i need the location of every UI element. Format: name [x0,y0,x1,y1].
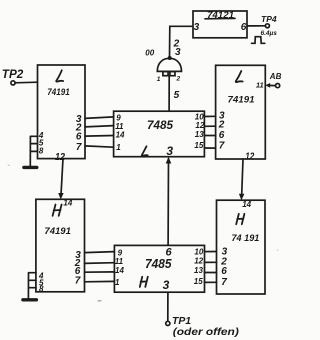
U5 pin 3 [194,22,200,33]
U1 pin 4 [38,131,44,140]
svg-text:5: 5 [174,90,180,101]
wire U4 pin3 to TP1 [167,292,169,321]
U8 pin 14 [242,200,251,209]
nand gate U6 7400 [157,58,181,75]
label H on U4 [140,277,148,287]
svg-text:9: 9 [116,113,121,122]
junction dot at gate output [168,56,172,60]
pulse waveform symbol [252,37,265,44]
terminal TP1 [166,315,191,327]
svg-text:7: 7 [219,141,225,152]
U3 pin 3 [166,144,173,158]
label 2 on gate output wire [173,39,180,50]
monostable U5 74121 [193,10,247,38]
svg-text:12: 12 [55,152,65,163]
svg-text:7485: 7485 [145,257,172,271]
svg-text:10: 10 [194,247,203,256]
U2 pin 7 [75,276,81,287]
counter U1 74191 (top left, L) [38,65,86,159]
wire U1 pins 4,5,8 to ground [30,136,37,166]
U2 pin 2 [74,258,81,269]
ground (U2) [23,298,37,301]
svg-text:00: 00 [145,48,154,57]
svg-text:14: 14 [115,266,124,275]
wire bus U1 to U3 (pins 3,2,6,7 to 9,11,14,1) [85,117,114,147]
U3 pin 1 [116,143,121,152]
U3 pin 11 [115,122,124,131]
wire U1 pin12 to U2 pin14 with arrow [58,159,64,200]
U3 pin 14 [116,131,125,140]
ground (U1) [24,166,37,169]
svg-text:12: 12 [245,151,254,162]
svg-text:6: 6 [219,130,225,141]
U7 pin 7 [219,141,225,152]
U1 pin 5 [39,139,44,148]
U6 pin 2 [176,76,181,83]
paper speckle [98,300,101,302]
U7 pin 12 [245,151,254,162]
U5 pin 6 [241,22,247,33]
counter U7 74191 (top right, L) [216,65,266,159]
svg-text:TP4: TP4 [261,14,277,24]
svg-text:74191: 74191 [228,95,255,105]
svg-text:1: 1 [157,76,161,83]
U3 pin 13 [195,130,204,139]
svg-text:14: 14 [242,200,251,209]
label 3 gate output pin [175,47,181,58]
U4 pin 10 [194,247,203,256]
svg-text:74191: 74191 [44,226,71,236]
wire U4 pin6 to U3 pin3 with arrow [166,157,172,245]
svg-text:74 191: 74 191 [232,233,260,243]
wire bus U2 to U4 (pins 3,2,6,7 to 9,11,14,1) [85,252,115,282]
svg-text:6: 6 [221,266,227,277]
svg-text:7: 7 [75,276,81,287]
U4 pin 6 [166,246,173,258]
wire U5 pin3 to gate output [170,26,193,57]
svg-text:7: 7 [221,277,227,288]
wire U2 pins 4,5,8 to ground [28,273,36,299]
U2 pin 5 [39,278,44,287]
svg-text:14: 14 [116,131,125,140]
svg-text:15: 15 [194,141,203,150]
wire U5 pin6 to TP4 [247,25,265,27]
U1 pin 7 [76,142,82,153]
wire bus U3 to U7 (pins 10,12,13,15 to 3,2,6,7) [204,116,215,148]
svg-text:3: 3 [166,144,173,158]
counter U2 74191 (bottom left, H) [36,199,85,291]
svg-text:12: 12 [194,257,203,266]
svg-text:15: 15 [194,277,203,286]
U2 pin 14 [63,198,72,207]
U2 pin 3 [75,250,81,261]
svg-text:12: 12 [195,121,204,130]
svg-text:7: 7 [76,142,82,153]
label 5 [174,90,180,101]
U8 pin 2 [220,257,227,268]
U2 pin 8 [39,284,44,293]
svg-text:(oder offen): (oder offen) [173,326,240,338]
svg-text:AB: AB [269,72,282,81]
comparator U4 7485 (bottom) [114,245,204,292]
U4 pin 1 [115,278,120,287]
U8 pin 6 [221,266,227,277]
svg-text:7485: 7485 [147,118,173,132]
U6 pin 1 [157,76,161,83]
U7 pin 2 [218,120,225,131]
label (oder offen) [173,326,240,338]
U4 pin 11 [115,257,124,266]
U3 pin 10 [195,113,204,122]
U4 pin 14 [115,266,124,275]
svg-text:TP2: TP2 [2,67,24,81]
U3 pin 15 [194,141,203,150]
U2 pin 6 [75,266,81,277]
U8 pin 7 [221,277,227,288]
label 6.4µs [261,30,278,37]
wire gate inputs to U3 pin 5 [168,76,170,112]
U7 pin 3 [219,111,225,122]
label L on U3 [142,146,148,156]
svg-text:3: 3 [194,22,200,33]
wire TP2 to U1 [15,81,37,84]
svg-text:3: 3 [163,278,170,292]
U4 pin 15 [194,277,203,286]
U4 pin 12 [194,257,203,266]
U3 pin 12 [195,121,204,130]
comparator U3 7485 (top) [114,111,205,157]
svg-text:13: 13 [195,130,204,139]
svg-text:13: 13 [194,266,203,275]
svg-text:2: 2 [218,120,225,131]
U7 pin 11 [256,81,264,90]
svg-text:11: 11 [115,257,124,266]
U1 pin 3 [76,114,82,125]
svg-text:8: 8 [39,284,44,293]
svg-text:14: 14 [63,198,72,207]
U1 pin 12 [55,152,65,163]
terminal TP4 [261,14,277,28]
U7 pin 6 [219,130,225,141]
svg-text:74191: 74191 [47,87,69,97]
svg-text:6.4µs: 6.4µs [261,30,278,37]
svg-text:3: 3 [175,47,181,58]
paper speckle [8,165,278,250]
U2 pin 4 [38,271,44,280]
svg-text:6: 6 [241,22,247,33]
U1 pin 6 [76,132,82,143]
counter U8 74191 (bottom right, H) [217,200,266,294]
svg-text:11: 11 [256,81,264,90]
node AB input arrow [265,72,281,88]
wire U7 pin12 to U8 pin14 with arrow [239,159,245,200]
svg-text:6: 6 [76,132,82,143]
svg-text:1: 1 [115,278,120,287]
svg-text:1: 1 [116,143,121,152]
svg-text:2: 2 [176,76,181,83]
U8 pin 3 [222,247,228,258]
U4 pin 9 [118,248,123,257]
label 00 (7400) [145,48,154,57]
svg-text:9: 9 [118,248,123,257]
U1 pin 8 [39,147,44,156]
svg-text:6: 6 [166,246,173,258]
U4 pin 13 [194,266,203,275]
terminal TP2 [2,67,24,85]
wire bus U4 to U8 (pins 10,12,13,15 to 3,2,6,7) [205,252,217,283]
U1 pin 2 [75,122,82,133]
svg-text:TP1: TP1 [172,315,191,327]
svg-text:8: 8 [39,147,44,156]
U4 pin 3 [163,278,170,292]
U3 pin 9 [116,113,121,122]
